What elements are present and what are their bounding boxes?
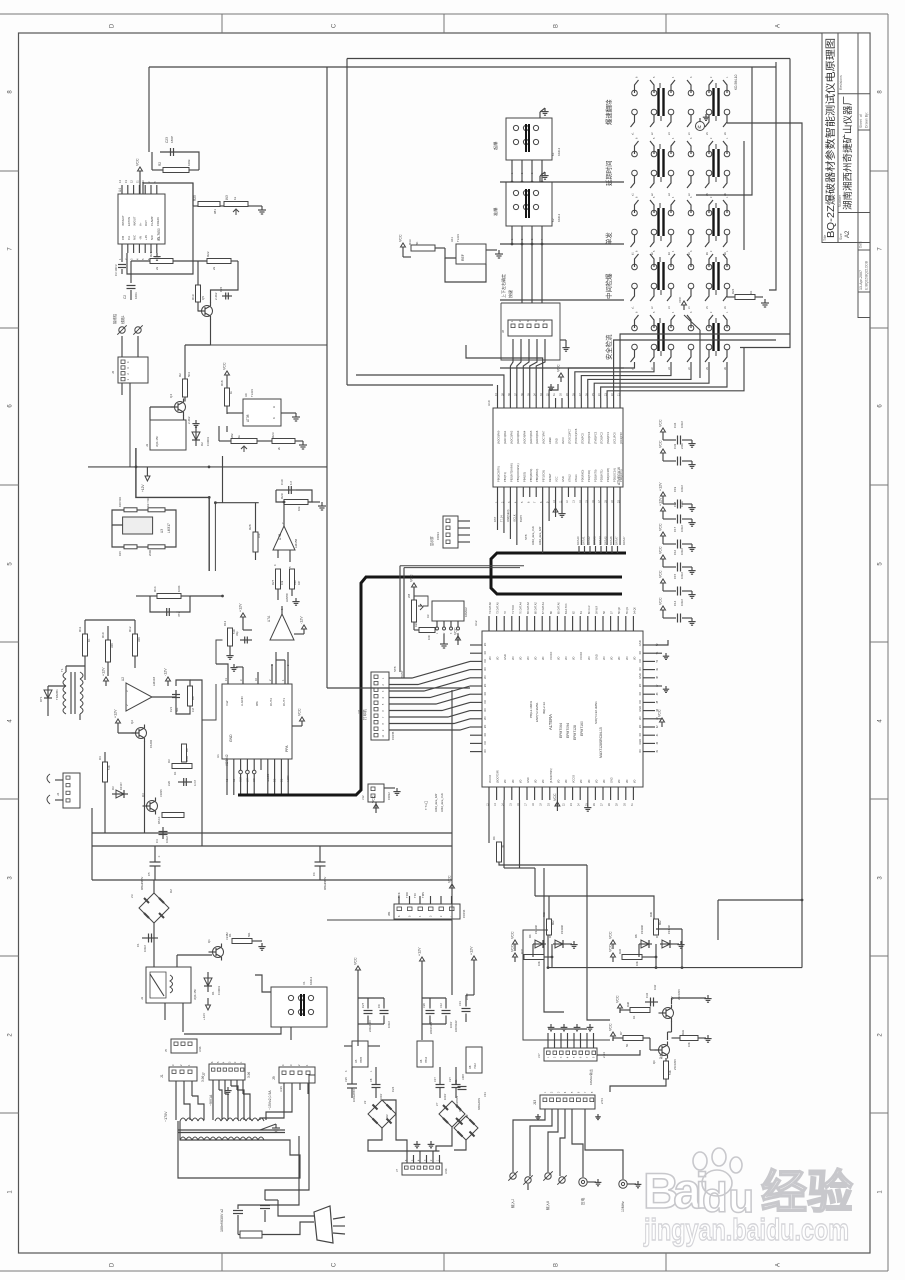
svg-text:7912: 7912 [473,1063,477,1069]
svg-text:CLAMP: CLAMP [150,216,154,226]
svg-text:VCC: VCC [678,296,682,303]
connector J1 3.96 [169,1067,197,1081]
regulator U5 7805 [352,1041,368,1067]
svg-text:+: + [158,855,160,859]
key switch S1 [632,90,638,96]
svg-text:1N4148: 1N4148 [641,925,644,934]
svg-text:I/O: I/O [483,667,487,670]
svg-text:输出: 输出 [659,1053,663,1059]
svg-text:D4: D4 [528,934,532,938]
svg-text:(BOOTDIR): (BOOTDIR) [497,770,500,783]
key switch S22 [688,264,694,270]
svg-text:VCC: VCC [609,944,613,952]
svg-text:单发: 单发 [604,232,613,245]
svg-text:60 CLR: 60 CLR [588,605,591,614]
sheet outer border right [887,14,889,1271]
wire Z4 to J7b [436,1127,452,1151]
svg-text:C19: C19 [673,486,677,492]
svg-text:R25: R25 [193,195,197,201]
svg-text:TL431: TL431 [250,389,254,397]
svg-text:KAD-3: KAD-3 [557,147,561,156]
svg-text:jingyan.baidu.com: jingyan.baidu.com [643,1212,849,1247]
svg-text:10MHZ: 10MHZ [464,607,468,617]
IC U1 AD7542 body [222,684,292,759]
svg-text:PD2(INT0): PD2(INT0) [593,469,597,482]
power VCC at X3 pin4 [457,634,459,640]
key switch S28 [688,325,694,331]
svg-text:Title: Title [823,235,827,241]
power +12V at U7A [242,617,244,622]
svg-text:-IN: -IN [138,236,142,240]
svg-text:VCC: VCC [555,476,559,482]
transformer secondary coil [180,1137,186,1140]
op-amp U7B LM358 [273,526,295,550]
resistor R29 10k [284,500,308,505]
svg-text:+12V: +12V [470,946,474,955]
svg-text:-12V: -12V [164,668,168,676]
svg-text:I/O: I/O [542,780,545,783]
svg-text:1K: 1K [632,1016,636,1019]
wire rail y833 [92,832,452,834]
ground at C17 [691,544,693,548]
svg-text:线路1: 线路1 [120,315,125,324]
svg-text:100nf: 100nf [680,525,684,532]
svg-text:~170V: ~170V [164,1111,168,1122]
svg-text:按键: 按键 [507,290,513,298]
svg-text:73 DAT.A5: 73 DAT.A5 [497,602,500,614]
svg-text:PB7(SCK): PB7(SCK) [542,470,546,482]
svg-text:I/O: I/O [617,657,621,660]
capacitor C15 100nf [662,583,664,588]
key switch S20 bottom hook [650,289,654,301]
svg-text:LM317: LM317 [167,523,171,533]
title block outline [822,33,870,243]
connector J4 [63,773,80,808]
svg-text:VCC: VCC [659,546,663,554]
svg-text:C27: C27 [361,1002,365,1008]
wire Z2 to J7b [368,1128,407,1151]
svg-text:VCC: VCC [511,944,515,952]
wire K2 pins down to keypad region [521,244,523,303]
svg-text:200R: 200R [148,550,152,556]
regulator U8 7912 [466,1047,482,1073]
power VCC GND at U10 bottom [555,497,557,512]
bus thick AD7542 to CPLD [238,577,622,795]
svg-text:3K: 3K [501,844,505,848]
svg-text:上下左右确定: 上下左右确定 [500,274,506,298]
capacitor C8 100nf [372,1084,381,1086]
svg-text:2-4K2: 2-4K2 [187,416,191,424]
svg-text:DAT.A4: DAT.A4 [598,536,602,545]
key row 1 actuator bars A [657,88,659,116]
svg-text:DAT.A5: DAT.A5 [604,536,608,545]
svg-text:1K: 1K [173,772,177,775]
key row 3 top bracket wires [635,200,639,213]
svg-text:KD-584-10: KD-584-10 [734,74,738,90]
key switch S22 bottom hook [687,289,691,301]
svg-text:I/O: I/O [632,657,636,660]
svg-text:AVCC: AVCC [561,437,565,444]
svg-text:DAT.A7: DAT.A7 [615,536,619,545]
svg-text:5K3: 5K3 [187,372,191,377]
svg-text:N/C: N/C [133,234,137,240]
svg-text:VCCIO: VCCIO [579,652,583,660]
svg-text:PB3(OC0/AIN1): PB3(OC0/AIN1) [516,463,520,482]
svg-text:VCC: VCC [410,574,414,582]
junction dots twin bus [208,496,211,499]
capacitor C32 10nf [645,1001,658,1003]
wire CON4 stubs [458,520,470,522]
power VCC at U1 right [292,725,302,727]
svg-text:10k: 10k [257,533,261,538]
svg-text:起爆: 起爆 [492,141,499,150]
svg-text:(ADC4)PA4: (ADC4)PA4 [522,430,526,444]
svg-text:GND: GND [638,673,642,679]
wire Vref feed [216,664,228,672]
key switch S5 bottom hook [705,115,709,127]
wire LM317 loop [112,510,124,525]
svg-text:R24: R24 [731,288,735,294]
svg-text:Date: Date [859,241,863,248]
zone tick marks bottom margin [221,1253,223,1271]
svg-text:R1: R1 [228,933,232,937]
resistor R24 1K [735,295,755,300]
svg-text:显示屏: 显示屏 [430,536,434,546]
wire rails above resistors [84,620,86,634]
svg-text:R2: R2 [158,162,162,166]
wire CPLD right caps link [655,640,668,645]
svg-text:C16: C16 [673,549,677,555]
key switch S28 bottom hook [687,350,691,362]
svg-text:1N4001: 1N4001 [206,436,210,446]
key switch S27 bottom hook [667,350,671,362]
svg-text:I/O: I/O [535,780,538,783]
connector J5 3.96 [171,1039,197,1053]
svg-text:中间检爆: 中间检爆 [604,273,613,299]
svg-text:68 DAT.A2: 68 DAT.A2 [535,602,538,614]
svg-text:+12V: +12V [659,497,663,506]
svg-text:VCC: VCC [372,795,376,803]
potentiometer W3 1k [224,202,248,207]
svg-text:AREF: AREF [548,437,552,444]
svg-text:R29: R29 [280,493,284,499]
resistor R37 5K [623,1036,643,1041]
svg-text:J11: J11 [357,709,361,714]
key switch S17 bottom hook [705,235,709,247]
svg-text:VCC: VCC [659,570,663,578]
svg-text:100k: 100k [187,159,191,166]
capacitor C6 980uf/360V [315,861,326,863]
svg-text:C13: C13 [458,1001,462,1006]
svg-text:R4: R4 [98,756,102,760]
svg-text:10k: 10k [297,506,301,511]
svg-text:I/O: I/O [625,657,629,660]
wire matrix rows to left [500,181,624,183]
left 12V column +12V arrow [473,960,475,965]
capacitor C22 at Q5 [222,295,232,297]
ground at A-GND [242,667,244,672]
capacitor C27 220n016V [364,1010,373,1012]
bus thick MCU data segment [491,553,626,594]
svg-text:K: K [272,417,276,419]
resistor R14 100K [157,594,181,599]
relay module K2 KAD-3 zhunbao [506,182,552,226]
svg-text:C2: C2 [123,295,127,299]
svg-text:I/O: I/O [483,741,487,744]
svg-text:3.96: 3.96 [198,1046,202,1052]
capacitor C14 100nf [662,610,664,615]
svg-text:B: B [554,24,560,28]
title block date/file column extension [858,243,870,318]
svg-text:C12: C12 [439,1003,443,1008]
svg-text:51K: 51K [668,1070,672,1075]
wire power rail right of J9 [309,1075,315,1080]
svg-text:IN/OUT: IN/OUT [133,216,137,226]
svg-text:Sheet of: Sheet of [859,114,863,128]
svg-text:I/O: I/O [588,780,591,783]
wire Q7 emitter [671,1021,673,1032]
svg-text:KAD-3: KAD-3 [557,213,561,222]
key switch S29 [706,325,712,331]
capacitor C19 100nf [662,496,664,501]
svg-text:接线柱: 接线柱 [112,313,117,324]
relay module X1 KAD-3 [271,987,327,1027]
svg-text:AT38: AT38 [246,414,250,422]
resistor R21 2k [150,259,173,264]
resistor R38 1K [630,1008,650,1013]
svg-text:(TMS)PC3: (TMS)PC3 [593,431,597,444]
key row 1 top bracket wires [635,80,639,93]
svg-text:安全检流: 安全检流 [604,334,613,360]
key row 2 top bracket wires [635,141,639,154]
capacitor C5 980uf/360V [150,861,161,863]
wire C30 loop [276,489,284,491]
svg-text:C32: C32 [645,992,649,998]
svg-text:I/O: I/O [483,659,487,662]
svg-text:J7: J7 [395,1169,399,1172]
power -12V at U7A [294,633,304,635]
svg-text:R33: R33 [681,1030,685,1035]
wire AD7542 vref rail [216,640,223,664]
svg-text:74 DAT.A6: 74 DAT.A6 [489,602,492,614]
svg-text:980uf/360V: 980uf/360V [140,876,144,890]
capacitor C1 100nf [142,937,158,939]
svg-text:VCC: VCC [658,709,662,717]
key switch S8 [651,151,657,157]
key switch S13 [632,210,638,216]
svg-text:I/O: I/O [565,780,568,783]
svg-text:Size: Size [839,233,843,240]
svg-text:VCC: VCC [399,234,403,242]
U10 bottom pin labels [497,487,499,497]
svg-text:(SCL)PC0: (SCL)PC0 [613,432,617,444]
AC power plug [314,1206,333,1243]
U1 bottom pins and bubbles [226,759,228,770]
svg-text:100n: 100n [134,292,138,299]
svg-text:8K2: 8K2 [551,920,555,925]
wire T1 to R11 [65,666,67,672]
key switch S21 [668,264,674,270]
svg-text:2SC1815: 2SC1815 [673,1059,677,1070]
svg-text:CON5: CON5 [391,731,395,740]
svg-text:Z3: Z3 [130,894,134,898]
svg-text:DAT.A0: DAT.A0 [576,536,580,545]
connector J13 8-pin [540,1095,595,1109]
svg-text:R18: R18 [220,380,224,386]
U10 top pin labels [497,398,499,408]
svg-text:447: 447 [297,580,301,585]
wire U12 bottom drops [488,800,490,843]
svg-text:32b4_data_CLK: 32b4_data_CLK [440,793,444,812]
ground at C16 [691,567,693,571]
resistor R28 10k vertical [253,532,258,552]
svg-text:K1: K1 [551,152,555,156]
resistor mains bleeder [240,1231,262,1238]
svg-text:VCC: VCC [659,597,663,605]
svg-text:EPM7160: EPM7160 [580,721,584,736]
svg-text:5K: 5K [415,241,419,245]
svg-text:C21: C21 [169,706,173,712]
svg-text:PD4(OC1B): PD4(OC1B) [606,468,610,482]
svg-text:I/O: I/O [638,733,642,736]
wire x222 feedback vertical [222,456,224,503]
resistor R12 349 vertical [133,634,138,656]
key switch S15 [668,210,674,216]
svg-text:Q4: Q4 [169,394,173,398]
key switch S10 [688,151,694,157]
wire left drop from top bus [148,67,150,152]
key row 5 actuator bars B [712,323,714,351]
bridge rectifier Z5 [454,1116,478,1140]
ground at X3 [443,634,445,640]
wire J7b stubs with grounds [406,1151,408,1163]
svg-text:69 DAT.A3: 69 DAT.A3 [527,602,530,614]
svg-text:VCC: VCC [553,793,557,801]
svg-text:I/O: I/O [638,717,642,720]
svg-text:V-: V- [156,237,160,240]
wire matrix row2 link [743,141,745,250]
power VCC at CON6 [451,888,453,893]
svg-text:D2: D2 [200,442,204,446]
svg-text:+12V: +12V [659,482,663,491]
svg-text:~9V/1A: ~9V/1A [209,1094,213,1106]
wire U4 outputs right [192,183,194,206]
svg-text:BUSY: BUSY [400,670,404,678]
svg-text:D1: D1 [211,991,215,995]
svg-text:C14: C14 [673,600,677,606]
svg-text:I/O: I/O [564,657,568,660]
svg-text:SIO(Y3.9/I.3MN1: SIO(Y3.9/I.3MN1 [594,701,598,724]
svg-text:C1?: C1? [433,1077,437,1082]
resistor R25 981 [198,202,220,207]
connector J9 3.96 [279,1067,315,1083]
svg-text:100n: 100n [680,501,684,507]
svg-text:1k: 1k [233,196,237,200]
ground at C18 [691,519,693,523]
svg-text:349: 349 [110,643,114,648]
svg-text:1000uf/25V: 1000uf/25V [353,1089,356,1102]
ground at J8 [565,344,567,348]
svg-text:1N4148: 1N4148 [561,925,564,934]
svg-text:GND: GND [527,777,530,783]
svg-text:CON2: CON2 [387,792,391,800]
svg-text:DAT.A6: DAT.A6 [609,536,613,545]
resistor R30 447 vertical [290,569,295,589]
svg-text:I/O: I/O [610,657,614,660]
wire top bus inner [347,58,790,60]
svg-text:2.54: 2.54 [600,1098,604,1104]
svg-text:经验: 经验 [761,1166,853,1218]
terminal piezo [579,1178,587,1186]
resistor R13 51R [228,628,233,646]
key switch S21 bottom hook [667,289,671,301]
svg-text:13-Apr-2007: 13-Apr-2007 [859,270,863,290]
U12 bottom pins [488,787,490,800]
svg-text:8K2: 8K2 [658,920,662,925]
svg-text:PB6(MISO): PB6(MISO) [535,469,539,482]
svg-text:PD3(INT1): PD3(INT1) [600,469,604,482]
connector J6 4-pin [118,357,148,383]
svg-text:1M: 1M [191,708,195,712]
svg-text:I/O: I/O [572,657,576,660]
transistor Q6 2SC1815 [659,1045,670,1056]
svg-text:OUT: OUT [144,220,148,226]
svg-text:(ADC3)PA3: (ADC3)PA3 [516,430,520,444]
resistor R20 10R [419,628,435,633]
svg-text:3.96: 3.96 [279,1086,283,1092]
svg-text:R38: R38 [626,1002,630,1007]
capacitor C10 100nf [436,1084,445,1086]
key row 5 top bracket wires [635,315,639,328]
wire to plug [262,1222,314,1235]
svg-text:J13: J13 [533,1100,537,1105]
svg-text:I/O: I/O [633,780,636,783]
key switch S26 bottom hook [650,350,654,362]
svg-text:J12: J12 [361,795,365,800]
relay J2 JQK-15F body [146,967,191,1003]
U12 right pins [643,644,655,646]
zone tick marks left margin [0,170,19,172]
wire Q4 base left [150,406,174,408]
svg-text:(ADC2)PA2: (ADC2)PA2 [509,430,513,444]
svg-text:DZ: DZ [385,1114,389,1118]
wire U1 outputs up to U7A [284,660,286,672]
key row 4 top bracket wires [635,254,639,267]
svg-text:JQK-15F: JQK-15F [155,436,159,447]
svg-text:C11: C11 [454,1079,458,1084]
capacitor C21 5uF [175,690,177,702]
svg-text:10R: 10R [427,635,431,640]
wire J7 drops [212,1080,214,1086]
svg-text:EPM7064: EPM7064 [559,723,563,738]
svg-text:100nf: 100nf [450,1021,453,1028]
svg-text:I/O: I/O [483,651,487,654]
svg-text:180P: 180P [170,136,174,143]
wire Q2 emitter [144,741,146,752]
svg-text:10nf: 10nf [653,985,657,990]
svg-text:Z?: Z? [435,1102,439,1106]
resistor R33b 5K [411,245,435,251]
title block column divider 2 [857,33,859,243]
svg-text:100nf: 100nf [387,1021,391,1028]
svg-text:Bai: Bai [643,1163,709,1219]
svg-text:C24: C24 [391,1086,395,1092]
svg-text:X1: X1 [302,981,306,985]
svg-text:(ADC0)PA0: (ADC0)PA0 [497,430,501,444]
svg-text:7812: 7812 [424,1056,428,1063]
svg-text:RESET: RESET [548,473,552,482]
power +12V arrow right section [421,961,423,966]
